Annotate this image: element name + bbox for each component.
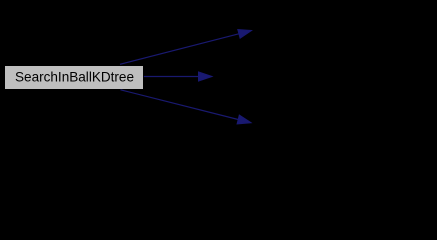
arrowhead xyxy=(238,30,252,39)
arrowhead xyxy=(237,115,251,124)
wire xyxy=(120,34,239,65)
wire xyxy=(144,76,199,78)
edge to node 4 (lower) xyxy=(121,90,252,124)
edge to node 2 (upper) xyxy=(120,30,252,65)
arrowhead xyxy=(199,72,213,81)
node 3 (invisible, black on black) xyxy=(215,66,390,88)
edge to node 3 (middle) xyxy=(144,72,212,81)
node SearchInBallKDtree xyxy=(5,66,144,90)
wire xyxy=(121,90,239,120)
node 2 (invisible, black on black) xyxy=(255,20,430,42)
svg-text:SearchInBallKDtree: SearchInBallKDtree xyxy=(15,68,134,84)
node 4 (invisible, black on black) xyxy=(255,112,430,134)
